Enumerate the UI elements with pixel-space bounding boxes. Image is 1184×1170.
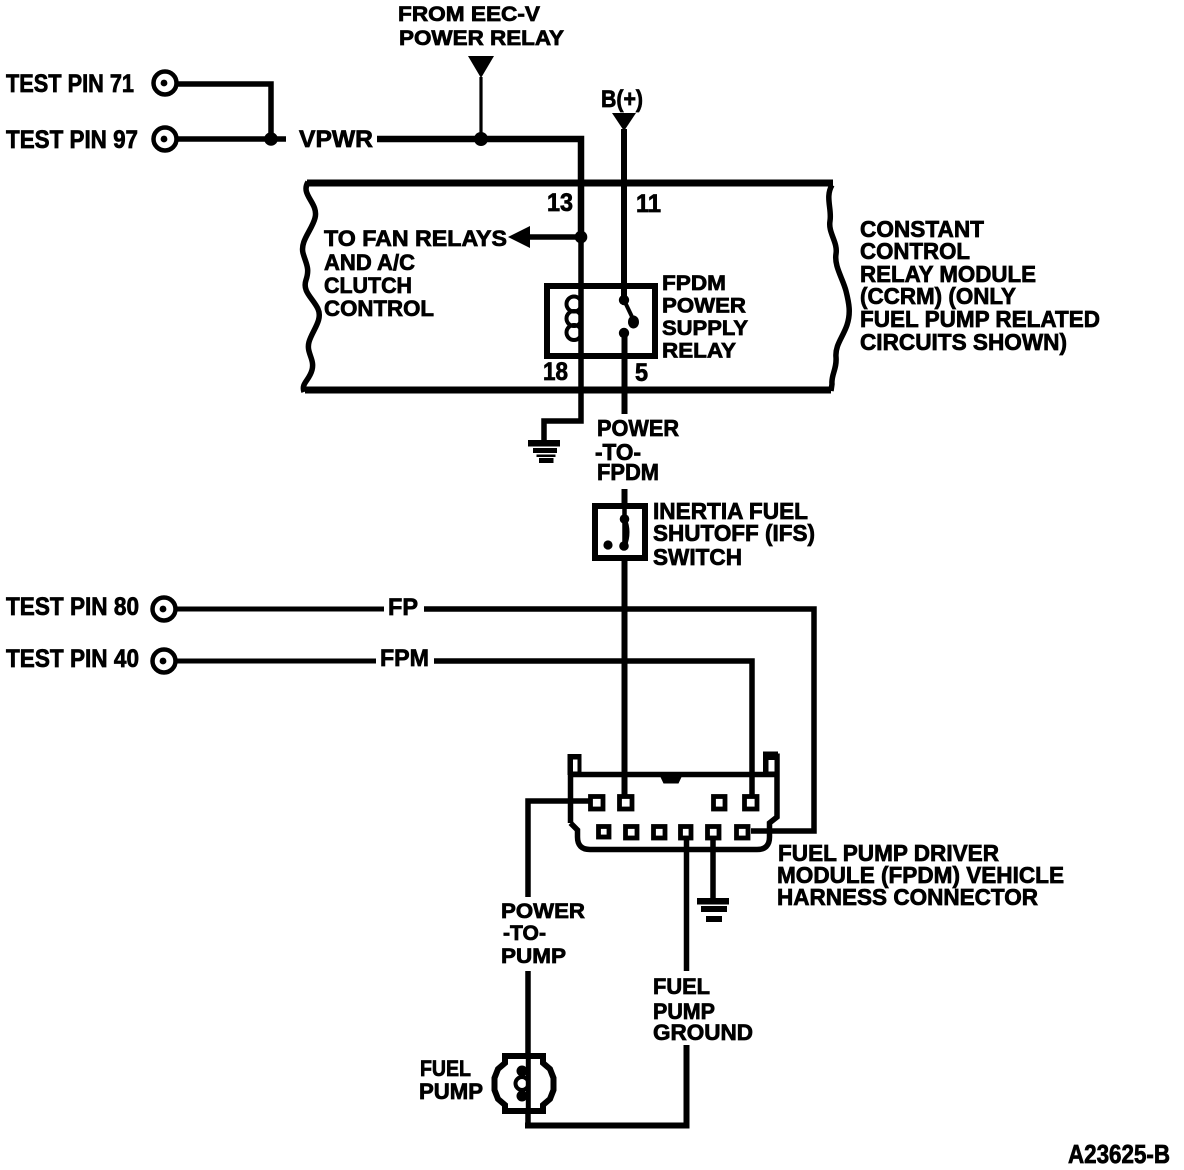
svg-text:CLUTCH: CLUTCH xyxy=(324,273,412,298)
module CCRM outline top edge xyxy=(307,180,833,187)
svg-text:SUPPLY: SUPPLY xyxy=(662,316,748,340)
wire B(+) to relay pin 11 switch contact xyxy=(621,129,627,300)
svg-text:SWITCH: SWITCH xyxy=(653,544,742,570)
node TEST PIN 80 xyxy=(6,593,176,621)
relay U1 FPDM power supply relay box xyxy=(547,286,655,356)
svg-text:VPWR: VPWR xyxy=(299,126,373,153)
wire VPWR to CCRM pin 13 xyxy=(377,139,581,237)
svg-text:FPDM: FPDM xyxy=(662,271,726,295)
wire POWER-TO-FPDM label to IFS switch xyxy=(622,489,628,506)
svg-text:18: 18 xyxy=(543,358,568,386)
svg-text:FPDM: FPDM xyxy=(597,459,659,485)
wire power-to-pump from connector xyxy=(528,801,590,897)
svg-text:POWER: POWER xyxy=(597,415,679,441)
label POWER -TO- PUMP xyxy=(501,899,585,968)
connector right retainer ear xyxy=(763,752,778,775)
wire FPM left segment xyxy=(177,659,376,664)
svg-text:HARNESS CONNECTOR: HARNESS CONNECTOR xyxy=(777,884,1038,910)
label FUEL PUMP GROUND xyxy=(653,974,753,1045)
svg-text:5: 5 xyxy=(635,359,648,387)
svg-text:11: 11 xyxy=(636,190,661,218)
label FUEL PUMP DRIVER MODULE (FPDM) VEHICLE HARNESS CONNECTOR xyxy=(777,840,1064,910)
node FROM EEC-V POWER RELAY xyxy=(398,3,564,134)
module CCRM outline left torn edge xyxy=(303,182,320,392)
ground G2 FPDM connector ground pin xyxy=(697,837,729,922)
wire fuel pump ground lower segment to pump xyxy=(525,1045,687,1126)
svg-text:POWER: POWER xyxy=(501,899,585,923)
wire relay coil pin 13 to pin 18 ground jog xyxy=(544,237,581,441)
node TEST PIN 40 xyxy=(6,645,176,673)
svg-text:FP: FP xyxy=(388,594,418,621)
svg-text:TEST PIN 97: TEST PIN 97 xyxy=(6,126,138,154)
svg-text:PUMP: PUMP xyxy=(501,944,566,968)
svg-text:AND A/C: AND A/C xyxy=(324,250,415,275)
wire power-to-pump label to fuel pump xyxy=(525,971,531,1055)
svg-text:13: 13 xyxy=(547,189,573,217)
node TEST PIN 97 xyxy=(6,126,177,154)
label CONSTANT CONTROL RELAY MODULE (CCRM) xyxy=(860,216,1100,355)
svg-text:GROUND: GROUND xyxy=(653,1020,753,1045)
relay switch contacts and blade xyxy=(619,295,639,338)
label FPDM POWER SUPPLY RELAY xyxy=(662,271,748,363)
connector left retainer ear xyxy=(568,754,582,775)
node B(+) xyxy=(601,86,643,131)
motor M1 fuel pump xyxy=(495,1054,554,1113)
connector top edge keying tab xyxy=(660,776,682,784)
connector pins bottom row (rects) xyxy=(599,827,749,839)
connector pins top row (rects) xyxy=(591,797,758,810)
svg-text:CIRCUITS SHOWN): CIRCUITS SHOWN) xyxy=(860,329,1067,355)
junction EEC-V tap on VPWR wire xyxy=(474,132,488,146)
svg-text:RELAY: RELAY xyxy=(662,339,736,363)
IFS switch internals xyxy=(603,506,629,551)
junction fan relay tap xyxy=(575,231,588,244)
label TO FAN RELAYS AND A/C CLUTCH CONTROL xyxy=(324,226,507,321)
wire relay pin 5 down to POWER-TO-FPDM label xyxy=(622,333,628,414)
wire IFS switch to FPDM connector xyxy=(622,558,628,796)
svg-text:POWER: POWER xyxy=(662,294,746,318)
label POWER -TO- FPDM xyxy=(595,415,679,485)
wire test pin 97 to VPWR label xyxy=(178,136,286,142)
wire fuel pump bottom lead xyxy=(525,1112,531,1128)
svg-text:CONTROL: CONTROL xyxy=(324,296,434,321)
node TEST PIN 71 xyxy=(6,70,177,98)
svg-text:FPM: FPM xyxy=(380,645,429,672)
svg-text:FUEL: FUEL xyxy=(420,1056,471,1081)
module CCRM outline bottom edge xyxy=(305,387,831,394)
wire arrow to fan relays xyxy=(526,234,578,240)
module CCRM outline right torn edge xyxy=(829,185,849,391)
connector FPDM vehicle harness connector outline xyxy=(568,754,777,850)
svg-text:POWER RELAY: POWER RELAY xyxy=(399,27,564,50)
wire fuel pump ground upper segment xyxy=(684,837,690,971)
label FUEL PUMP (pump) xyxy=(419,1056,483,1104)
svg-text:PUMP: PUMP xyxy=(419,1079,483,1104)
wire FP right segment down to connector xyxy=(424,609,814,831)
svg-text:TEST PIN 71: TEST PIN 71 xyxy=(6,70,134,98)
wire FPM right segment down to connector xyxy=(434,661,752,796)
svg-text:A23625-B: A23625-B xyxy=(1068,1139,1170,1169)
label INERTIA FUEL SHUTOFF (IFS) SWITCH xyxy=(653,498,815,570)
junction VPWR node xyxy=(264,132,278,146)
svg-text:-TO-: -TO- xyxy=(503,921,546,945)
svg-text:SHUTOFF (IFS): SHUTOFF (IFS) xyxy=(653,520,815,546)
svg-text:FROM EEC-V: FROM EEC-V xyxy=(398,3,540,26)
ground G1 CCRM pin 18 xyxy=(528,440,560,463)
svg-text:FUEL: FUEL xyxy=(653,974,710,999)
svg-text:TO FAN RELAYS: TO FAN RELAYS xyxy=(324,226,507,251)
wire FP left segment xyxy=(177,607,384,612)
switch IFS inertia fuel shutoff box xyxy=(595,506,645,558)
wire test pin 71 to VPWR junction xyxy=(178,84,271,139)
svg-text:TEST PIN 80: TEST PIN 80 xyxy=(6,593,139,621)
svg-text:TEST PIN 40: TEST PIN 40 xyxy=(6,645,139,673)
relay coil xyxy=(567,297,582,341)
svg-text:B(+): B(+) xyxy=(601,86,643,113)
